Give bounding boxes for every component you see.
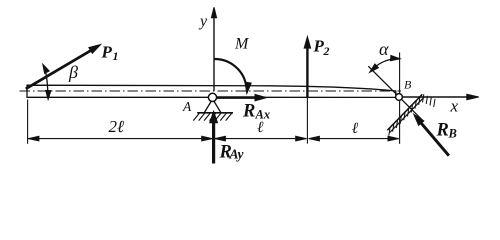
svg-text:2: 2 [323, 44, 330, 58]
svg-text:B: B [404, 78, 412, 92]
svg-text:P: P [101, 43, 113, 62]
svg-text:A: A [182, 99, 192, 114]
svg-text:M: M [234, 36, 250, 53]
svg-text:Ay: Ay [229, 147, 245, 162]
svg-text:R: R [242, 102, 255, 122]
svg-text:β: β [68, 62, 78, 82]
svg-text:2ℓ: 2ℓ [109, 117, 125, 136]
svg-text:ℓ: ℓ [352, 120, 359, 137]
svg-text:y: y [198, 13, 208, 30]
svg-text:1: 1 [113, 49, 119, 63]
svg-text:R: R [436, 121, 449, 141]
svg-text:x: x [450, 97, 459, 116]
svg-text:α: α [379, 39, 389, 59]
svg-text:B: B [448, 127, 457, 141]
svg-text:ℓ: ℓ [257, 119, 264, 136]
